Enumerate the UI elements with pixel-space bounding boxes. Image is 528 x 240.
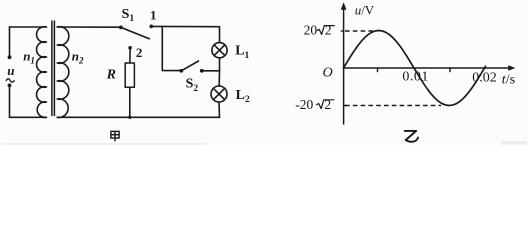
wire: secondary top to S1	[57, 26, 119, 28]
lamp L2 bulb	[211, 86, 227, 102]
label jia (甲) drawn	[111, 131, 119, 141]
graph: u axis	[344, 5, 513, 124]
scan artifact bottom-right smudge	[501, 141, 527, 144]
svg-text:u/V: u/V	[355, 3, 375, 18]
svg-text:2: 2	[136, 45, 143, 60]
wire: primary bottom	[10, 116, 46, 118]
wire: L2 bottom lead	[218, 102, 221, 117]
svg-text:u: u	[7, 63, 14, 78]
svg-text:20: 20	[304, 23, 318, 38]
switch S2 pole	[179, 69, 183, 73]
wire: contact1 to top-right corner	[151, 26, 219, 42]
svg-text:R: R	[106, 67, 116, 82]
svg-text:2: 2	[324, 97, 331, 112]
wire: secondary bottom rail	[57, 116, 219, 118]
wire: resistor bottom lead	[129, 87, 131, 117]
axis arrow up	[341, 2, 347, 10]
transformer core	[51, 21, 53, 116]
svg-text:0.02: 0.02	[472, 70, 497, 85]
svg-text:-20: -20	[295, 97, 313, 112]
transformer primary coil n1	[37, 27, 47, 118]
wire: source bottom stub	[9, 87, 11, 118]
axis arrow right	[508, 65, 515, 71]
svg-text:0.01: 0.01	[402, 69, 429, 84]
tick -20sqrt2	[344, 105, 347, 107]
label yi (乙) drawn	[405, 131, 418, 142]
wire: S2 contact to lamp branch	[202, 70, 220, 72]
switch S2 contact	[200, 69, 204, 73]
node: source terminal top	[8, 55, 12, 59]
wire: S2 feed from top wire	[162, 27, 179, 71]
switch S1 blade	[121, 27, 149, 38]
tick +20sqrt2	[341, 30, 344, 32]
wire: junction to L2	[218, 71, 220, 86]
switch S2 blade	[181, 61, 198, 71]
resistor R body	[125, 63, 134, 87]
lamp L1 bulb	[212, 43, 227, 58]
wire: primary top	[10, 26, 46, 28]
wire: contact 2 stub to resistor	[129, 48, 131, 63]
graph: t axis	[344, 67, 513, 69]
AC source tilde	[6, 79, 14, 82]
transformer secondary coil n2	[57, 27, 69, 118]
wire: L1 to junction	[219, 58, 221, 71]
node: resistor to bottom rail junction	[128, 116, 131, 119]
switch S1 contact 2	[128, 46, 132, 50]
svg-text:1: 1	[150, 8, 157, 23]
dashed level -20sqrt2	[345, 105, 441, 107]
svg-text:t/s: t/s	[502, 73, 515, 88]
wire: source top stub	[9, 27, 11, 56]
tick t=0.015	[449, 68, 451, 72]
node: source terminal bottom	[8, 84, 12, 88]
switch S1 contact 1	[149, 25, 153, 29]
scan artifact bottom-left streak	[2, 143, 207, 144]
svg-text:O: O	[323, 65, 333, 80]
dashed level +20sqrt2	[345, 30, 376, 32]
svg-text:2: 2	[325, 23, 332, 38]
sine curve u(t)	[344, 31, 486, 106]
tick t=0.005	[377, 68, 379, 72]
switch S1 pole	[119, 26, 123, 30]
